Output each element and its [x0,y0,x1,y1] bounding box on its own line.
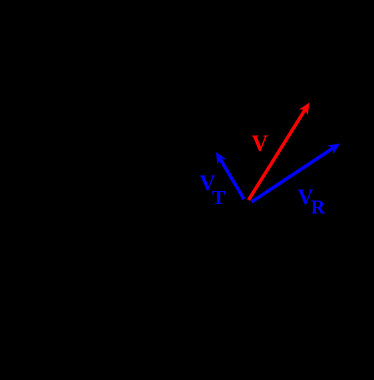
svg-text:V: V [252,131,269,156]
vector V (red arrow up-right) [249,103,310,201]
label V_R [298,184,327,219]
vector V_T (blue arrow up-left) [216,152,244,199]
label V_T [200,170,227,209]
vector V_R (blue arrow, shallow up-right) [252,144,341,203]
svg-text:T: T [212,187,226,209]
svg-text:R: R [311,198,326,219]
